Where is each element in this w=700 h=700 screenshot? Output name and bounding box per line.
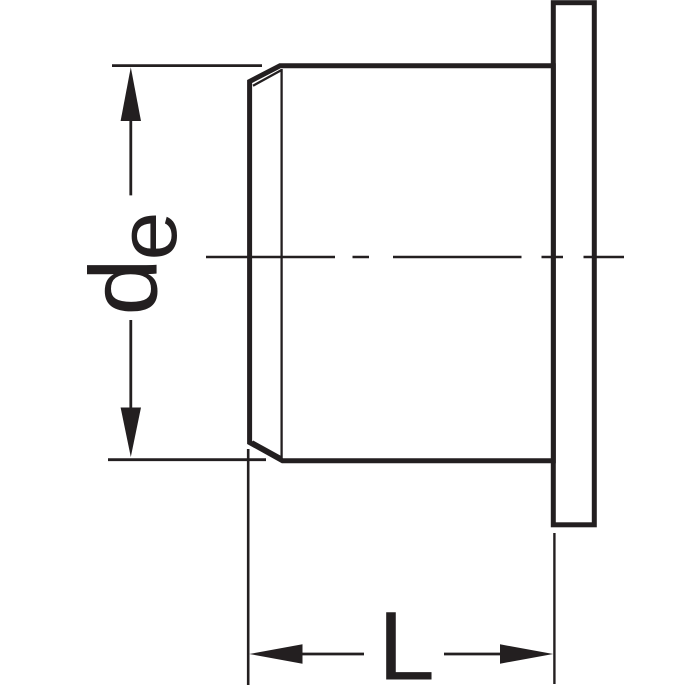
flange (right vertical plate) bbox=[553, 3, 594, 525]
bottom extension line for de bbox=[108, 458, 266, 461]
centerline (dash-dot axis) bbox=[206, 256, 624, 258]
L dimension line left shaft bbox=[301, 653, 364, 656]
body outline (cylindrical spigot with chamfered end) bbox=[250, 66, 554, 461]
svg-text:e: e bbox=[102, 212, 194, 261]
de dimension line upper shaft bbox=[129, 119, 132, 195]
chamfer shoulder edge (thin vertical line) bbox=[280, 69, 282, 459]
down arrowhead bbox=[121, 408, 141, 458]
bottom chamfer inner edge (thin) bbox=[253, 442, 282, 458]
top extension line for de bbox=[112, 64, 262, 67]
de dimension line lower shaft bbox=[129, 320, 132, 408]
svg-text:d: d bbox=[71, 258, 178, 316]
L right extension line bbox=[553, 533, 555, 684]
up arrowhead bbox=[121, 67, 141, 121]
left arrowhead bbox=[249, 644, 302, 663]
L dimension line right shaft bbox=[444, 653, 501, 656]
svg-text:L: L bbox=[378, 593, 435, 700]
L left extension line bbox=[247, 449, 250, 685]
top chamfer inner edge (thin) bbox=[253, 70, 282, 86]
right arrowhead bbox=[500, 644, 553, 663]
